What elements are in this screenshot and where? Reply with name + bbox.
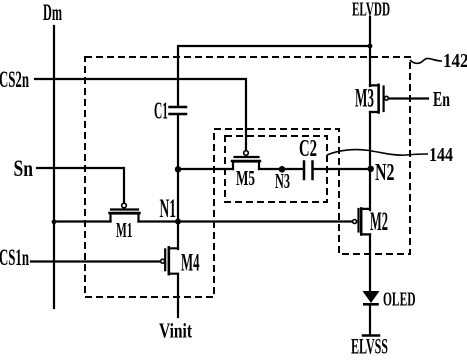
svg-text:OLED: OLED bbox=[383, 290, 416, 311]
svg-text:CS1n: CS1n bbox=[0, 245, 29, 270]
svg-text:M4: M4 bbox=[181, 248, 200, 277]
svg-text:C2: C2 bbox=[299, 136, 317, 162]
svg-text:Sn: Sn bbox=[14, 156, 34, 181]
svg-text:ELVSS: ELVSS bbox=[351, 334, 388, 358]
svg-text:C1: C1 bbox=[154, 99, 168, 125]
svg-text:144: 144 bbox=[429, 144, 453, 166]
svg-text:M1: M1 bbox=[116, 218, 133, 242]
svg-text:N3: N3 bbox=[275, 169, 290, 193]
svg-text:CS2n: CS2n bbox=[0, 67, 29, 92]
svg-text:142: 142 bbox=[443, 50, 467, 72]
svg-text:En: En bbox=[433, 87, 450, 111]
svg-text:Dm: Dm bbox=[43, 0, 62, 25]
svg-text:N2: N2 bbox=[375, 160, 395, 186]
svg-text:ELVDD: ELVDD bbox=[352, 0, 390, 21]
svg-text:Vinit: Vinit bbox=[159, 319, 193, 343]
svg-text:N1: N1 bbox=[160, 194, 177, 223]
svg-text:M2: M2 bbox=[370, 207, 388, 236]
svg-text:M5: M5 bbox=[236, 166, 255, 190]
svg-text:M3: M3 bbox=[355, 84, 374, 113]
